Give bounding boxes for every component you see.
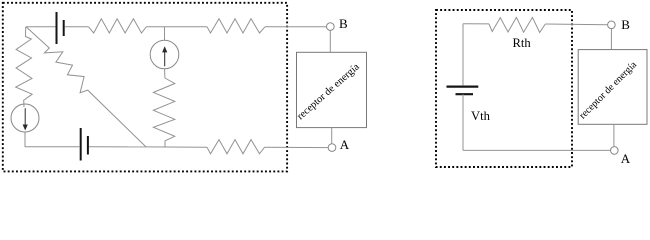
battery E1 long plate (56, 12, 58, 44)
battery Vth long plate (447, 85, 479, 87)
wire R4 to bottom rail (164, 141, 166, 147)
wire left branch bottom right circuit (462, 94, 464, 150)
battery E1 short plate (63, 20, 65, 36)
svg-text:Rth: Rth (513, 36, 532, 50)
current source I2 circle (150, 40, 179, 69)
resistor R4 middle vertical (153, 78, 174, 141)
resistor R2 top-right (207, 19, 265, 33)
svg-text:Vth: Vth (471, 109, 491, 123)
wire current source I1 to bottom rail (24, 132, 26, 147)
current source I2 arrow up (164, 52, 166, 67)
svg-text:B: B (339, 16, 348, 31)
wire bottom rail right circuit (463, 149, 611, 151)
resistor R6 bottom-right (207, 140, 265, 154)
resistor R1 top-left (89, 19, 147, 33)
wire bottom rail R6 to terminal A (265, 146, 329, 148)
current source I1 arrow down (24, 108, 26, 125)
svg-text:A: A (340, 137, 350, 152)
wire terminal B right to receptor box (610, 29, 612, 50)
battery E2 long plate (80, 128, 82, 161)
resistor Rth (489, 17, 545, 32)
svg-text:B: B (621, 17, 630, 32)
wire left branch top right circuit (462, 24, 464, 86)
terminal B left circuit (327, 23, 335, 31)
terminal A left circuit (328, 144, 336, 152)
wire top rail corner to Rth (463, 23, 489, 25)
wire R2 to terminal B (265, 26, 327, 28)
wire battery E1 to resistor R1 (65, 26, 89, 28)
resistor R5 diagonal (26, 27, 146, 147)
receptor de energia box left (297, 52, 367, 127)
dotted enclosure left network (3, 3, 287, 172)
receptor de energia box right (578, 50, 647, 125)
wire junction to current source I2 (164, 27, 166, 40)
wire receptor box to terminal A (331, 128, 333, 144)
dotted enclosure thevenin equivalent (436, 10, 572, 167)
resistor R3 left vertical (16, 27, 33, 107)
wire bottom rail current source I1 to battery E2 (25, 146, 80, 148)
wire Rth to terminal B right (545, 23, 607, 26)
battery E2 short plate (87, 136, 89, 155)
wire receptor box right to terminal A (613, 124, 615, 146)
svg-text:A: A (621, 151, 631, 166)
wire R1 to R2 through junction (146, 26, 207, 28)
wire current source I2 to resistor R4 (164, 69, 166, 78)
wire bottom rail diagonal junction to R6 (146, 146, 207, 148)
terminal A right circuit (611, 147, 619, 155)
wire bottom rail battery E2 to diagonal junction (89, 146, 146, 148)
terminal B right circuit (608, 21, 616, 29)
wire terminal B to receptor box (329, 30, 331, 52)
wire top rail from node to battery E1 (26, 26, 56, 28)
battery Vth short plate (456, 93, 474, 95)
current source I1 circle (11, 104, 39, 132)
